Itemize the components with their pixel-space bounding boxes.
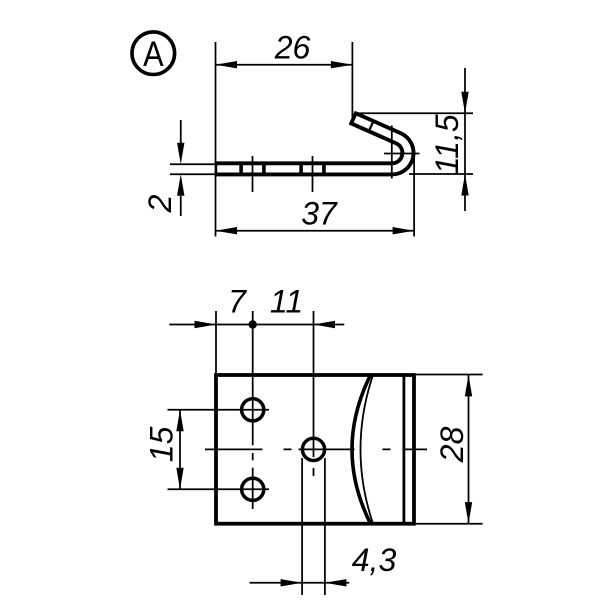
svg-text:2: 2 bbox=[142, 194, 178, 213]
svg-text:28: 28 bbox=[434, 426, 470, 463]
svg-text:11,5: 11,5 bbox=[429, 114, 465, 174]
svg-text:4,3: 4,3 bbox=[352, 542, 397, 578]
svg-text:11: 11 bbox=[270, 284, 303, 320]
svg-text:37: 37 bbox=[301, 195, 338, 231]
svg-text:15: 15 bbox=[144, 426, 180, 462]
svg-text:A: A bbox=[143, 34, 164, 74]
svg-text:7: 7 bbox=[228, 284, 247, 320]
svg-text:26: 26 bbox=[274, 30, 311, 66]
